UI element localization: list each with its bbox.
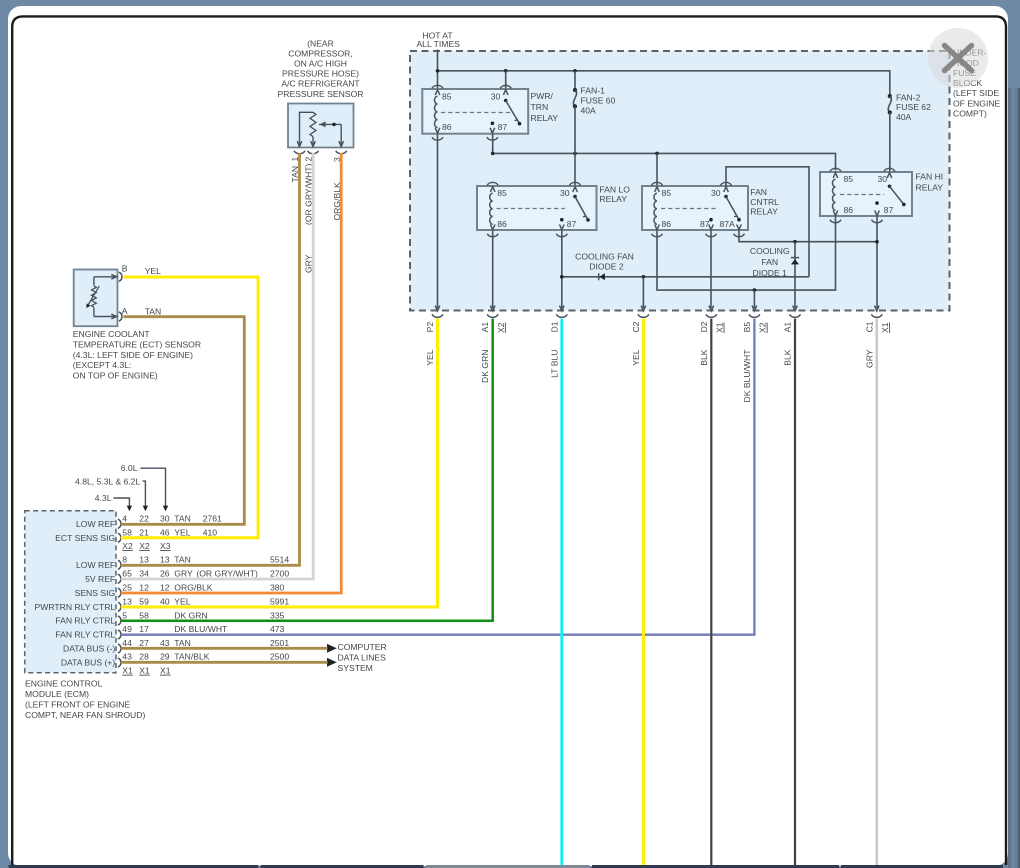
svg-text:40A: 40A [896, 112, 912, 122]
svg-text:ENGINE CONTROL: ENGINE CONTROL [25, 679, 103, 689]
wire TAN/BLK 2500 data bus plus [121, 661, 328, 664]
svg-text:2500: 2500 [270, 652, 289, 662]
wire fan-lo coil86 to A1 exit [492, 230, 494, 308]
svg-text:8: 8 [122, 555, 127, 565]
relay FAN CNTRL coil 85-86 [654, 187, 671, 230]
svg-text:4.3L: 4.3L [95, 493, 112, 503]
svg-text:RELAY: RELAY [599, 194, 627, 204]
svg-text:4.8L, 5.3L & 6.2L: 4.8L, 5.3L & 6.2L [75, 477, 140, 487]
connector arcs pwr/trn top pins [432, 85, 511, 88]
svg-text:44: 44 [122, 638, 132, 648]
label FAN CNTRL RELAY [750, 187, 779, 217]
label UNDERHOOD FUSE BLOCK (LEFT SIDE OF ENGINE COMPT) [953, 48, 1001, 119]
connector arcs fan-hi top pins [830, 168, 895, 171]
node bus2-fanlo30 [491, 152, 495, 156]
wire fuse1 to fan-lo pin30 [574, 106, 576, 185]
wire YEL 410 ECT-B to ECM ect sens sig [121, 276, 258, 538]
wire BLK A1 down [794, 319, 796, 865]
label ENGINE CONTROL MODULE (ECM) [25, 679, 145, 721]
connector arcs fan-lo bottom pins [487, 234, 567, 237]
svg-text:FAN: FAN [761, 257, 778, 267]
svg-text:DIODE 2: DIODE 2 [589, 261, 624, 271]
svg-text:X2: X2 [758, 322, 768, 333]
svg-text:COMPRESSOR,: COMPRESSOR, [288, 48, 352, 58]
svg-text:GRY: GRY [174, 569, 193, 579]
sensor ECT box [74, 270, 118, 327]
wire DK BLU/WHT 473 B5 to ECM fan rly ctrl [121, 319, 755, 635]
svg-text:X2: X2 [139, 541, 150, 551]
svg-text:OF ENGINE: OF ENGINE [953, 98, 1001, 108]
wire fan-cntrl pin30 loop to diode2 line [726, 167, 809, 277]
node bus1-fuse1 [573, 69, 577, 73]
svg-text:6.0L: 6.0L [121, 463, 138, 473]
svg-text:86: 86 [844, 205, 854, 215]
svg-text:40: 40 [160, 596, 170, 606]
engine variant selector 6.0L [121, 463, 168, 511]
wire C2 exit drop [642, 277, 644, 308]
relay FAN LO coil 85-86 [490, 187, 507, 230]
wire LT BLU D1 to fan motor [560, 319, 563, 865]
relay FAN LO RELAY box [477, 186, 597, 230]
svg-text:COOLING FAN: COOLING FAN [575, 252, 634, 262]
svg-text:5514: 5514 [270, 555, 289, 565]
fuse block exit arrows [435, 306, 879, 311]
svg-text:A/C REFRIGERANT: A/C REFRIGERANT [281, 79, 360, 89]
svg-text:12: 12 [139, 583, 149, 593]
svg-text:DK GRN: DK GRN [174, 610, 207, 620]
svg-text:MODULE (ECM): MODULE (ECM) [25, 689, 89, 699]
svg-text:86: 86 [497, 219, 507, 229]
svg-text:FAN RLY CTRL: FAN RLY CTRL [55, 630, 115, 640]
svg-text:27: 27 [139, 638, 149, 648]
wire fuse2 to fan-hi relay pin 30 [889, 113, 891, 172]
A/C sensor pin number labels 1 2 3 [290, 157, 342, 163]
ECM connector id row X1 X1 X1 [122, 666, 170, 676]
connector arcs fan-lo top pins [487, 182, 580, 185]
relay FAN HI RELAY box [820, 172, 912, 216]
svg-text:COMPUTER: COMPUTER [338, 642, 387, 652]
underhood fuse block dashed box [410, 51, 950, 311]
fuse FAN-1 FUSE 60 40A [573, 71, 616, 116]
ECM pin number rows [122, 514, 289, 662]
svg-text:X3: X3 [160, 541, 171, 551]
svg-text:87A: 87A [720, 219, 736, 229]
svg-text:85: 85 [844, 174, 854, 184]
connector arcs A/C sensor pins 1 2 3 [294, 151, 347, 154]
svg-text:COMPT): COMPT) [953, 109, 987, 119]
svg-text:28: 28 [139, 652, 149, 662]
label COMPUTER DATA LINES SYSTEM [338, 642, 387, 673]
svg-text:(LEFT SIDE: (LEFT SIDE [953, 88, 999, 98]
svg-text:X1: X1 [880, 322, 890, 333]
svg-text:22: 22 [139, 514, 149, 524]
node 87A-fanhi87 [875, 240, 879, 244]
relay PWR/TRN RELAY box [422, 89, 528, 134]
svg-text:TAN: TAN [174, 555, 191, 565]
svg-text:FAN LO: FAN LO [599, 184, 630, 194]
svg-text:85: 85 [662, 188, 672, 198]
svg-text:LOW REF: LOW REF [76, 560, 115, 570]
wire GRY 2700 A/C pin2 to ECM 5v ref [121, 153, 313, 579]
node 87A-diode1 [793, 240, 797, 244]
label FAN HI RELAY [916, 172, 944, 193]
svg-text:ALL TIMES: ALL TIMES [416, 39, 460, 49]
svg-text:(4.3L: LEFT SIDE OF ENGINE): (4.3L: LEFT SIDE OF ENGINE) [73, 350, 193, 360]
engine variant selector 4.8L, 5.3L & 6.2L [75, 477, 148, 512]
diode COOLING FAN DIODE 1 [750, 242, 799, 309]
svg-text:46: 46 [160, 527, 170, 537]
svg-text:C1: C1 [864, 321, 874, 332]
svg-text:COMPT, NEAR FAN SHROUD): COMPT, NEAR FAN SHROUD) [25, 710, 145, 720]
ECM connector id row X2 X2 X3 [122, 541, 170, 551]
svg-text:YEL: YEL [145, 266, 161, 276]
ECM pin function labels [34, 519, 115, 668]
svg-text:(NEAR: (NEAR [307, 38, 334, 48]
svg-text:2700: 2700 [270, 569, 289, 579]
label A/C REFRIGERANT PRESSURE SENSOR [278, 38, 364, 99]
svg-text:25: 25 [122, 583, 132, 593]
ECM label OR GRY/WHT alternate [196, 569, 258, 579]
svg-text:LOW REF: LOW REF [76, 519, 115, 529]
svg-text:FAN-1: FAN-1 [581, 86, 606, 96]
wire fan-hi pin87 to C1 exit [876, 216, 878, 308]
svg-text:FUSE 60: FUSE 60 [581, 95, 616, 105]
close button circle with X [928, 28, 988, 88]
node coil86 bus B5 [753, 288, 757, 292]
svg-text:29: 29 [160, 652, 170, 662]
svg-text:X1: X1 [160, 666, 171, 676]
label ENGINE COOLANT TEMPERATURE (ECT) SENSOR [73, 329, 201, 381]
svg-text:4: 4 [122, 514, 127, 524]
svg-text:C2: C2 [631, 321, 641, 332]
connector arcs fan-hi bottom pins [830, 220, 882, 223]
connector arcs fan-cntrl top pins [652, 182, 732, 185]
wire DK GRN 335 A1 to ECM fan rly ctrl [121, 319, 493, 621]
svg-text:X1: X1 [122, 666, 133, 676]
relay FAN HI switch 30-87 [875, 173, 906, 216]
right scrollbar strip [1008, 88, 1020, 868]
svg-text:30: 30 [160, 514, 170, 524]
svg-text:30: 30 [560, 188, 570, 198]
ECM pin bracket arcs [118, 519, 121, 667]
svg-text:SYSTEM: SYSTEM [338, 663, 373, 673]
wire hot-at-all-times feed to bus [437, 50, 439, 89]
wire bus2 to fan-cntrl coil 85 [656, 153, 658, 185]
wire middle bus to relay coils [493, 153, 836, 170]
svg-text:(OR GRY/WHT): (OR GRY/WHT) [196, 569, 258, 579]
svg-text:34: 34 [139, 569, 149, 579]
svg-text:LT BLU: LT BLU [549, 350, 559, 378]
svg-text:5V REF: 5V REF [85, 574, 115, 584]
svg-text:X1: X1 [139, 666, 150, 676]
svg-text:PRESSURE SENSOR: PRESSURE SENSOR [278, 89, 364, 99]
wire TAN 2501 data bus minus [121, 647, 328, 650]
svg-text:COOLING: COOLING [750, 246, 790, 256]
svg-text:DK GRN: DK GRN [480, 350, 490, 383]
sensor ECT internal thermistor [86, 275, 116, 319]
svg-text:ON TOP OF ENGINE): ON TOP OF ENGINE) [73, 371, 158, 381]
svg-text:PWRTRN RLY CTRL: PWRTRN RLY CTRL [34, 602, 115, 612]
relay FAN CNTRL switch 30-87-87A [700, 187, 741, 230]
relay PWR/TRN coil 85-86 [435, 90, 452, 133]
svg-text:410: 410 [203, 527, 218, 537]
node bus1-pin30 [504, 69, 508, 73]
svg-text:30: 30 [877, 174, 887, 184]
svg-text:87: 87 [498, 122, 508, 132]
connector pin labels P2 A1 X2 D1 C2 D2 X1 B5 X2 A1 C1 X1 [425, 321, 890, 333]
svg-text:ON A/C HIGH: ON A/C HIGH [294, 59, 347, 69]
label HOT AT ALL TIMES [416, 31, 460, 49]
connector arcs fan-cntrl bottom pins [652, 234, 745, 237]
svg-text:FUSE 62: FUSE 62 [896, 102, 931, 112]
svg-text:21: 21 [139, 527, 149, 537]
svg-text:B: B [122, 264, 128, 274]
wire TAN 2761 ECT-A to ECM low ref [121, 315, 245, 524]
svg-text:DATA LINES: DATA LINES [338, 652, 387, 662]
svg-text:CNTRL: CNTRL [750, 197, 779, 207]
wire pwr/trn pin30 from bus [505, 71, 507, 89]
label FAN LO RELAY [599, 184, 630, 204]
svg-text:ECT SENS SIG: ECT SENS SIG [55, 533, 115, 543]
svg-text:13: 13 [139, 555, 149, 565]
wire fan-lo pin87 down to diode2 line and D1 exit [561, 230, 563, 308]
svg-text:2501: 2501 [270, 638, 289, 648]
svg-text:17: 17 [139, 624, 149, 634]
A/C sensor wire color labels TAN, GRY (OR GRY/WHT), ORG/BLK [290, 163, 342, 273]
svg-text:13: 13 [160, 555, 170, 565]
wire B5 exit drop [753, 290, 755, 308]
node bus2-fancntrl85 [655, 152, 659, 156]
svg-text:BLK: BLK [699, 349, 709, 366]
svg-text:59: 59 [139, 596, 149, 606]
svg-text:DATA BUS (-): DATA BUS (-) [63, 644, 115, 654]
svg-text:YEL: YEL [174, 527, 190, 537]
svg-text:85: 85 [497, 188, 507, 198]
svg-text:YEL: YEL [174, 596, 190, 606]
svg-text:TAN: TAN [174, 514, 191, 524]
label PWR/TRN RELAY [531, 91, 559, 123]
connector arcs ECT pins B A [119, 272, 122, 321]
fuse block exit connector cups [432, 314, 882, 317]
svg-text:P2: P2 [425, 322, 435, 333]
svg-text:380: 380 [270, 583, 285, 593]
wire TAN 5514 A/C pin1 to ECM low ref [121, 153, 300, 565]
sensor A/C refrigerant pressure sensor box [288, 104, 354, 148]
data bus arrowheads [327, 644, 337, 667]
module ECM dashed box [25, 511, 116, 673]
svg-text:FAN RLY CTRL: FAN RLY CTRL [55, 616, 115, 626]
svg-text:86: 86 [662, 219, 672, 229]
wire fan-cntrl coil86 to coil-86 bus [657, 216, 836, 290]
node diode2-fanlo87 [560, 275, 564, 279]
ECT pin letters B A [122, 264, 128, 316]
svg-text:TRN: TRN [531, 102, 549, 112]
node bus1-coil85 [436, 69, 440, 73]
svg-text:DK BLU/WHT: DK BLU/WHT [742, 349, 752, 403]
svg-text:BLK: BLK [783, 349, 793, 366]
svg-text:ENGINE COOLANT: ENGINE COOLANT [73, 329, 151, 339]
wire fan-cntrl pin87A to diode1 junction line [739, 230, 877, 241]
relay FAN LO switch 30-87 [560, 187, 590, 230]
svg-text:A1: A1 [783, 322, 793, 333]
svg-text:DATA BUS (+): DATA BUS (+) [61, 658, 115, 668]
svg-text:A: A [122, 306, 128, 316]
sensor A/C internal potentiometer [297, 112, 343, 146]
wire pwr/trn coil86 to P2 exit [437, 134, 439, 309]
wire YEL C2 down [642, 319, 645, 865]
wire top power bus [438, 71, 890, 96]
connector arcs pwr/trn bottom pins [432, 137, 498, 140]
svg-text:RELAY: RELAY [750, 207, 778, 217]
engine variant selector 4.3L [95, 493, 132, 511]
svg-text:49: 49 [122, 624, 132, 634]
svg-text:12: 12 [160, 583, 170, 593]
svg-text:X1: X1 [715, 322, 725, 333]
svg-text:FAN HI: FAN HI [916, 172, 944, 182]
svg-text:86: 86 [442, 122, 452, 132]
bottom window bar segments [9, 865, 1004, 868]
svg-text:40A: 40A [581, 105, 597, 115]
svg-text:PRESSURE HOSE): PRESSURE HOSE) [282, 69, 359, 79]
svg-text:DK BLU/WHT: DK BLU/WHT [174, 624, 228, 634]
svg-text:13: 13 [122, 596, 132, 606]
svg-text:30: 30 [711, 188, 721, 198]
relay PWR/TRN switch 30-87 [490, 90, 521, 133]
wire fan-cntrl pin87 to D2 exit [710, 230, 712, 308]
svg-text:SENS SIG: SENS SIG [75, 588, 116, 598]
svg-text:GRY: GRY [864, 349, 874, 368]
svg-text:58: 58 [122, 527, 132, 537]
svg-text:RELAY: RELAY [916, 182, 944, 192]
svg-text:(LEFT FRONT OF ENGINE: (LEFT FRONT OF ENGINE [25, 700, 130, 710]
svg-text:5991: 5991 [270, 596, 289, 606]
svg-text:FAN: FAN [750, 187, 767, 197]
svg-text:(EXCEPT 4.3L:: (EXCEPT 4.3L: [73, 360, 132, 370]
svg-text:26: 26 [160, 569, 170, 579]
relay FAN CNTRL RELAY box [642, 186, 748, 230]
node bus2-fuse1 branch [573, 152, 577, 156]
svg-text:87: 87 [567, 219, 577, 229]
svg-text:5: 5 [122, 610, 127, 620]
wire ORG/BLK 380 A/C pin3 to ECM sens sig [121, 153, 341, 593]
svg-text:TAN: TAN [145, 307, 162, 317]
svg-text:87: 87 [700, 219, 710, 229]
svg-text:473: 473 [270, 624, 285, 634]
relay FAN HI coil 85-86 [833, 173, 854, 216]
svg-text:RELAY: RELAY [531, 113, 559, 123]
svg-text:43: 43 [122, 652, 132, 662]
svg-text:X2: X2 [496, 322, 506, 333]
svg-text:PWR/: PWR/ [531, 91, 554, 101]
svg-text:TAN/BLK: TAN/BLK [174, 652, 209, 662]
svg-text:D2: D2 [699, 321, 709, 332]
svg-text:YEL: YEL [631, 349, 641, 365]
svg-text:ORG/BLK: ORG/BLK [174, 583, 212, 593]
node diode2-C2 [642, 275, 646, 279]
svg-text:43: 43 [160, 638, 170, 648]
svg-text:58: 58 [139, 610, 149, 620]
wire YEL 5991 P2 to ECM pwrtrn rly ctrl [121, 319, 438, 607]
svg-text:65: 65 [122, 569, 132, 579]
svg-text:FAN-2: FAN-2 [896, 92, 921, 102]
svg-text:2761: 2761 [203, 514, 222, 524]
svg-text:TAN: TAN [174, 638, 191, 648]
svg-text:85: 85 [442, 91, 452, 101]
svg-text:X2: X2 [122, 541, 133, 551]
svg-text:30: 30 [491, 91, 501, 101]
wire color labels below fuse block [425, 349, 874, 403]
wire pwr/trn pin87 to bus2 [492, 134, 494, 154]
svg-text:A1: A1 [480, 322, 490, 333]
svg-text:D1: D1 [549, 321, 559, 332]
diode COOLING FAN DIODE 2 and link wire [562, 252, 809, 281]
svg-text:335: 335 [270, 610, 285, 620]
ECT wire color labels YEL TAN [145, 266, 162, 317]
wire BLK D2 down [710, 319, 712, 865]
svg-text:87: 87 [884, 205, 894, 215]
svg-text:TEMPERATURE (ECT) SENSOR: TEMPERATURE (ECT) SENSOR [73, 339, 201, 349]
fuse FAN-2 FUSE 62 40A [888, 92, 931, 122]
svg-text:B5: B5 [742, 322, 752, 333]
svg-text:YEL: YEL [425, 349, 435, 365]
wire GRY C1 down [875, 319, 878, 865]
